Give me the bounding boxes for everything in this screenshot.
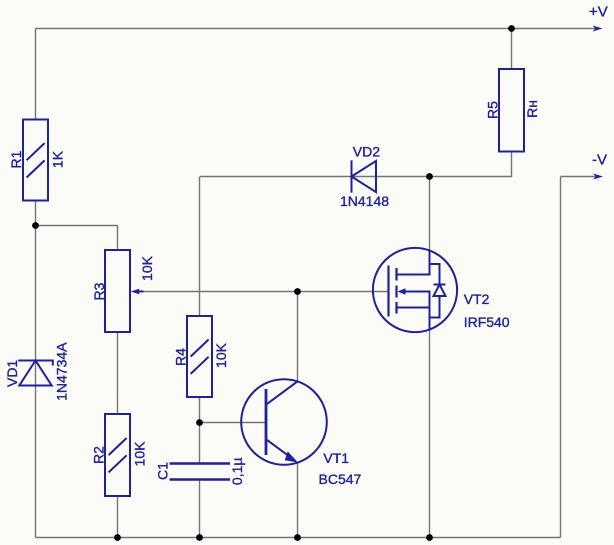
wire VT1 base [200, 422, 265, 424]
svg-text:R3: R3 [91, 282, 107, 300]
wire left drop to R1 [35, 29, 37, 120]
wire right vertical to -V [560, 177, 562, 538]
node wiper row / VT1 collector [294, 288, 301, 295]
wire VT2 drain [429, 177, 431, 252]
node rail / R2 [114, 534, 121, 541]
svg-text:10K: 10K [132, 441, 148, 467]
wire R3 wiper to VT2 gate [143, 291, 389, 293]
svg-text:IRF540: IRF540 [464, 314, 510, 330]
svg-text:VD1: VD1 [4, 360, 20, 387]
svg-text:R1: R1 [8, 150, 24, 168]
node top rail / R5 [508, 25, 515, 32]
wire VT1 collector [297, 292, 299, 382]
svg-text:1N4734A: 1N4734A [54, 342, 70, 401]
zener diode VD1 [18, 361, 53, 386]
node rail / C1 [196, 534, 203, 541]
svg-text:+V: +V [589, 4, 608, 21]
wire -V stub [561, 176, 597, 178]
resistor R4 [187, 316, 212, 397]
wire R3 bottom to R2 top [117, 332, 119, 414]
svg-text:R2: R2 [91, 446, 107, 464]
wire R5 bottom to VD2 row [200, 152, 512, 177]
wire R4 bottom to C1 [199, 397, 201, 464]
wire rail to R5 top [511, 29, 513, 70]
MOSFET VT2 [373, 248, 457, 332]
svg-text:VT1: VT1 [323, 450, 349, 466]
svg-text:VD2: VD2 [353, 144, 380, 160]
svg-text:R5: R5 [485, 101, 501, 119]
svg-text:1N4148: 1N4148 [340, 193, 389, 209]
wire bottom rail [36, 537, 561, 539]
svg-text:10K: 10K [139, 255, 155, 281]
svg-text:10K: 10K [213, 342, 229, 368]
svg-text:R4: R4 [173, 348, 189, 366]
resistor R2 [105, 414, 130, 496]
diode VD2 [352, 160, 377, 192]
wire C1 bottom to rail [199, 480, 201, 538]
wire R1 bottom through VD1 to bottom rail [35, 201, 37, 538]
svg-text:C1: C1 [155, 462, 171, 480]
svg-text:-V: -V [592, 152, 607, 169]
svg-text:BC547: BC547 [319, 471, 362, 487]
node rail / VT2 source [426, 534, 433, 541]
wire node A to R3 top [36, 226, 118, 251]
node rail / VT1 emitter [294, 534, 301, 541]
wire VT1 emitter to rail [297, 463, 299, 538]
svg-text:VT2: VT2 [464, 291, 490, 307]
wire VT2 source to rail [429, 330, 431, 538]
wire R2 bottom to rail [117, 496, 119, 538]
node VD2 row / VT2 drain [426, 173, 433, 180]
svg-text:Rн: Rн [524, 100, 540, 118]
power arrow -V [593, 174, 603, 180]
transistor VT1 [241, 379, 327, 465]
wire VD2 row down to R4 top [199, 177, 201, 317]
power arrow +V [593, 26, 603, 32]
node R4 / base / C1 [196, 419, 203, 426]
node R1 / R3 / VD1 [32, 222, 39, 229]
svg-text:1K: 1K [50, 150, 66, 168]
wire top +V rail [36, 28, 597, 30]
potentiometer R3 [105, 250, 144, 332]
capacitor C1 [170, 464, 231, 480]
resistor R5 [499, 69, 524, 152]
resistor R1 [23, 120, 48, 201]
svg-text:0,1µ: 0,1µ [229, 458, 245, 486]
